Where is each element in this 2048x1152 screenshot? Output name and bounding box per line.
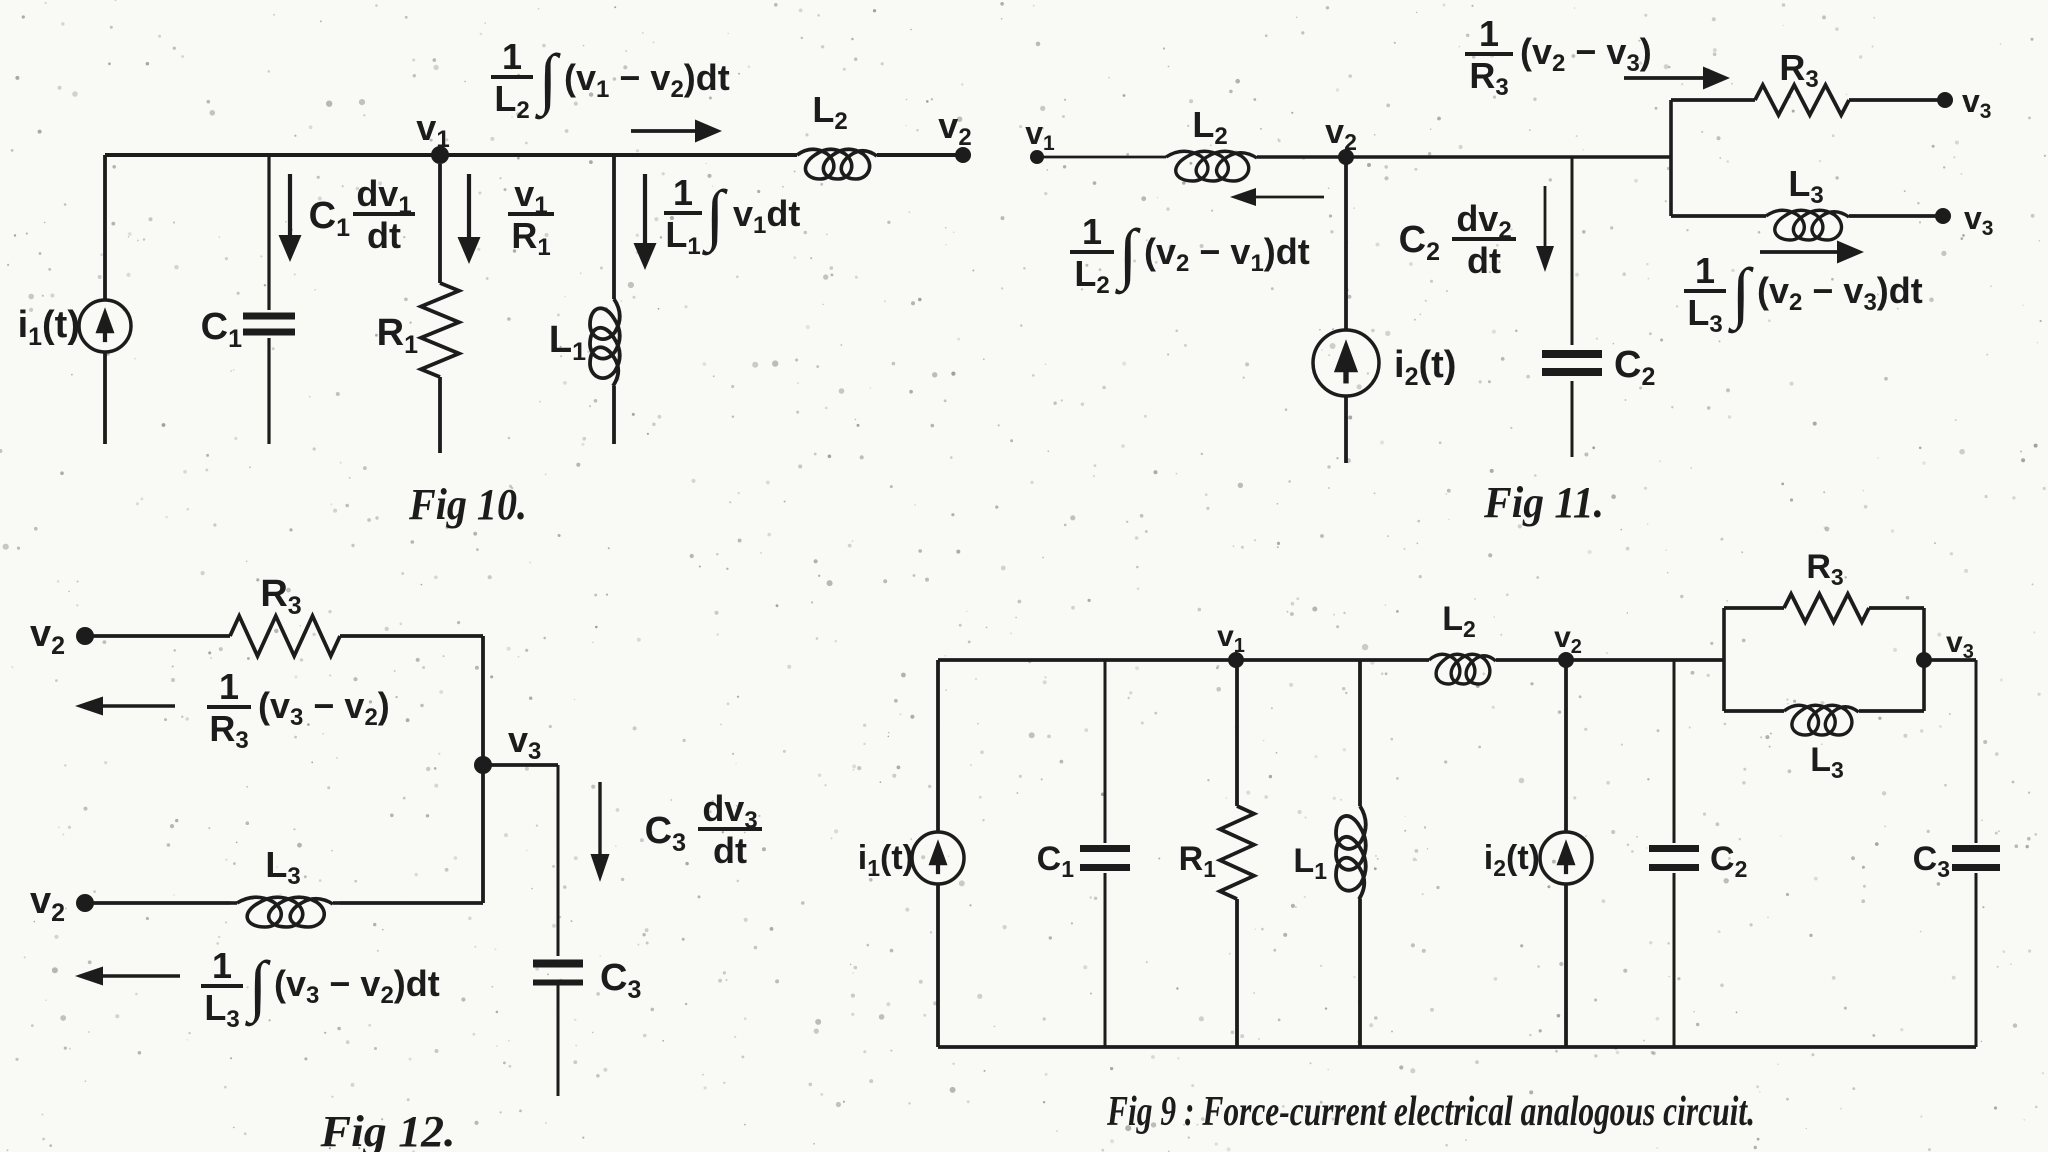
svg-text:Fig 12.: Fig 12. [319,1107,455,1152]
wire fig11 R3 branch right [1849,98,1945,102]
label v1 fig11 [1025,115,1055,155]
svg-text:(v3 − v2)dt: (v3 − v2)dt [274,963,440,1009]
wire fig10 main top [105,153,963,157]
resistor R3 fig9 [1784,594,1869,622]
svg-text:dt: dt [1467,240,1501,281]
node v1 fig9 [1228,652,1244,668]
label 1/L2 int (v2-v1)dt fig11 [1070,211,1310,299]
current arrow 1/L2 top fig10 [631,120,722,143]
current arrow 1/L3 fig11 [1760,241,1864,264]
svg-text:1: 1 [1082,211,1102,252]
wire fig10 source leg upper [103,155,107,300]
label L2 fig11 [1192,104,1227,150]
wire fig9 box top right [1869,606,1924,610]
label i2(t) fig11 [1394,344,1456,391]
node v2 top fig12 [76,627,94,645]
wire fig9 v3 to C3 [1924,658,1976,662]
node v3 top fig11 [1937,92,1953,108]
label 1/R3 (v3-v2) fig12 [207,666,390,754]
inductor L3 fig9 [1784,705,1859,735]
wire fig9 i1 leg upper [936,660,940,832]
inductor L2 fig10 [797,149,877,179]
wire fig9 L1 leg upper [1358,660,1362,806]
label v2 bottom fig12 [30,880,65,927]
wire fig9 R1 leg upper [1235,660,1239,806]
caption Fig 12 [319,1107,455,1152]
label 1/L2 int (v1-v2)dt fig10 [491,36,730,124]
capacitor C1 fig9 [1080,849,1130,868]
wire fig9 i2 leg upper [1564,660,1568,832]
node v2 fig10 [955,147,971,163]
wire fig9 box left [1722,608,1726,711]
current arrow 1/L2 left fig11 [1230,188,1324,206]
svg-text:dt: dt [713,830,747,871]
label R1 fig9 [1179,840,1217,882]
resistor R1 fig9 [1220,806,1254,899]
svg-text:1: 1 [1479,13,1499,54]
current arrow C2dv2/dt fig11 [1536,186,1554,272]
label i2(t) fig9 [1484,839,1540,881]
label L3 fig11 [1788,163,1823,209]
label L2 fig10 [812,89,847,135]
label v1 fig9 [1217,620,1245,657]
label v2 fig9 [1554,621,1582,658]
wire fig12 R3 left [85,634,230,638]
node v3 bottom fig11 [1935,208,1951,224]
svg-text:i1(t): i1(t) [18,304,80,351]
svg-text:1: 1 [212,945,232,986]
label 1/L3 int (v3-v2)dt fig12 [201,945,440,1033]
wire fig9 box right [1922,608,1926,711]
wire fig10 R1 leg lower [438,377,442,453]
wire fig9 i1 leg lower [936,884,940,1047]
capacitor C2 fig11 [1542,354,1602,372]
label C2 fig9 [1710,840,1747,882]
wire fig9 L1 leg lower [1358,899,1362,1047]
svg-text:1: 1 [502,36,522,77]
svg-text:v1dt: v1dt [733,193,800,239]
wire fig11 i2 leg lower [1344,396,1348,463]
current arrow C1dv1/dt fig10 [279,174,302,262]
wire fig9 C2 leg upper [1673,660,1676,843]
svg-text:Fig 11.: Fig 11. [1483,478,1604,527]
label v3 fig12 [508,719,541,765]
capacitor C3 fig12 [533,964,583,983]
node v1 fig11 [1030,150,1044,164]
wire fig10 C1 leg upper [267,155,270,310]
current arrow C3dv3/dt fig12 [591,782,610,882]
caption Fig 11 [1483,478,1604,527]
wire fig10 L1 leg lower [612,386,616,444]
label L2 fig9 [1442,600,1476,642]
svg-text:Fig 9 : Force-current electric: Fig 9 : Force-current electrical analogo… [1106,1089,1755,1135]
label C3 dv3/dt fig12 [645,788,762,871]
wire fig11 v1 to L2 [1037,156,1166,159]
caption Fig 9 [1106,1089,1755,1135]
wire fig9 box bottom right [1859,709,1924,713]
wire fig9 i2 leg lower [1564,884,1568,1047]
label v2 top fig12 [30,613,65,660]
wire fig11 L3 branch right [1849,214,1943,218]
inductor L1 fig9 [1336,806,1366,899]
wire fig9 C3 leg upper [1975,660,1978,843]
resistor R3 fig12 [230,616,340,656]
label v2 fig10 [938,105,971,151]
label L3 fig9 [1810,741,1844,783]
wire fig12 R3 right [340,634,483,638]
inductor L2 fig9 [1429,654,1496,684]
wire fig12 C3 leg upper [557,765,560,956]
current source i2(t) fig9 [1540,832,1592,884]
svg-text:(v2 − v1)dt: (v2 − v1)dt [1144,231,1310,277]
label 1/R3 (v2-v3) fig11 [1465,13,1652,101]
node v1 fig10 [431,146,449,164]
label v1/R1 fig10 [508,173,554,261]
label L1 fig10 [549,319,586,366]
node v2 fig9 [1558,652,1574,668]
svg-text:Fig 10.: Fig 10. [408,480,527,529]
wire fig9 top [938,658,1724,662]
wire fig12 v3 tap [483,763,558,767]
svg-text:(v2 − v3)dt: (v2 − v3)dt [1757,270,1923,316]
current arrow v1/R1 fig10 [458,174,481,264]
svg-text:1: 1 [219,666,239,707]
node v3 fig12 [474,756,492,774]
wire fig11 R3 branch left [1671,98,1755,102]
svg-text:i2(t): i2(t) [1484,839,1540,881]
label v2 fig11 [1325,113,1357,155]
label 1/L1 int v1dt fig10 [664,172,800,260]
capacitor C1 fig10 [243,316,295,332]
current source i1(t) fig10 [79,300,131,352]
current arrow 1/R3 fig12 [75,697,175,716]
label R3 fig9 [1806,548,1843,590]
wire fig9 C2 leg lower [1673,873,1676,1047]
resistor R1 fig10 [421,283,459,377]
resistor R3 fig11 [1755,85,1849,115]
label C1 fig10 [201,306,242,353]
label R3 fig12 [260,573,301,620]
wire fig9 box bottom left [1724,709,1784,713]
label L3 fig12 [265,844,300,890]
label i1(t) fig10 [18,304,80,351]
wire fig12 L3 left [85,901,230,905]
caption Fig 10 [408,480,527,529]
svg-text:dt: dt [367,215,401,256]
inductor L2 fig11 [1166,151,1257,181]
inductor L3 fig11 [1766,210,1849,240]
wire fig12 L3 right [340,901,483,905]
wire fig11 C2 leg lower [1571,381,1574,457]
node v2 bottom fig12 [76,894,94,912]
label C3 fig12 [600,957,641,1004]
label v1 fig10 [416,107,449,153]
wire fig9 box top left [1724,606,1784,610]
wire fig9 C1 leg lower [1104,873,1107,1047]
wire fig9 C1 leg upper [1104,660,1107,843]
label v3 bottom fig11 [1964,200,1993,240]
inductor L3 fig12 [230,897,340,927]
wire fig12 C3 leg lower [557,984,560,1096]
label R3 fig11 [1779,47,1818,93]
current arrow 1/L3 fig12 [75,967,180,986]
current source i1(t) fig9 [912,832,964,884]
wire fig9 R1 leg lower [1235,899,1239,1047]
capacitor C2 fig9 [1649,849,1699,868]
wire fig10 C1 leg lower [267,338,270,444]
wire fig10 source leg lower [103,352,107,444]
node v2 fig11 [1338,149,1354,165]
label L1 fig9 [1293,842,1327,884]
svg-text:1: 1 [1695,250,1715,291]
inductor L1 fig10 [590,299,620,386]
wire fig10 L1 leg upper [612,155,616,299]
current arrow 1/L1 fig10 [634,174,657,270]
svg-text:1: 1 [673,172,693,213]
wire fig12 right vertical [481,636,485,903]
wire fig11 L3 branch left [1671,214,1766,218]
label C1 dv1/dt fig10 [309,173,415,256]
current arrow 1/R3 fig11 [1624,67,1730,90]
wire fig11 L2 to junction [1257,155,1671,158]
wire fig10 R1 leg upper [438,164,442,283]
wire fig11 i2 leg upper [1344,157,1348,330]
wire fig11 junction vertical [1669,100,1673,216]
label C3 fig9 [1913,840,1950,882]
svg-text:(v1 − v2)dt: (v1 − v2)dt [564,57,730,103]
svg-text:i2(t): i2(t) [1394,344,1456,391]
wire fig9 bottom [938,1045,1976,1049]
label v3 top fig11 [1962,83,1991,123]
label C1 fig9 [1037,840,1075,882]
label v3 fig9 [1946,626,1974,663]
node v3 fig9 [1916,652,1932,668]
label R1 fig10 [377,312,418,359]
label C2 fig11 [1614,344,1655,391]
wire fig9 C3 leg lower [1975,873,1978,1047]
svg-text:i1(t): i1(t) [858,839,914,881]
label 1/L3 int (v2-v3)dt fig11 [1684,250,1923,338]
capacitor C3 fig9 [1952,849,2000,868]
label i1(t) fig9 [858,839,914,881]
label C2 dv2/dt fig11 [1399,198,1516,281]
current source i2(t) fig11 [1313,330,1379,396]
wire fig11 C2 leg upper [1571,157,1574,345]
